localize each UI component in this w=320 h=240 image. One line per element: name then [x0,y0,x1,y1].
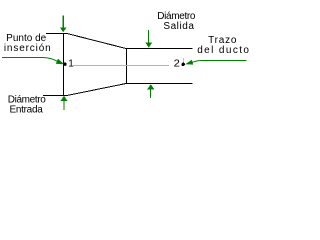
svg-text:1: 1 [68,59,74,70]
svg-text:del ducto: del ducto [197,45,250,56]
leader: punto de insercion (green underline + curve to node 1) [2,58,58,62]
leader: trazo del ducto (green underline + diagonal to node 2) [192,61,246,63]
wire: transition top slanted edge [67,34,126,49]
wire: duct bottom edge [126,83,193,85]
wire: duct centerline (gray) [73,65,169,67]
arrow: entrada bottom dimension arrow (up) [61,96,68,110]
wire: transition throat vertical edge [126,48,128,84]
svg-text:inserción: inserción [4,43,52,54]
arrow: salida top dimension arrow (down) [145,30,152,48]
svg-text:Salida: Salida [163,21,194,32]
arrow: salida bottom dimension arrow (up) [147,84,154,98]
wire: entrada left vertical edge [63,33,65,95]
svg-text:2: 2 [174,59,181,70]
wire: bottom-left extension line [43,95,68,97]
leader arrowhead at node 2 [185,60,193,65]
svg-text:Entrada: Entrada [9,105,43,116]
leader arrowhead at node 1 [56,59,64,65]
wire: top-left extension line [46,33,68,35]
arrow: entrada top dimension arrow (down) [60,16,67,33]
wire: transition bottom slanted edge [67,84,126,96]
node 2 grip tick (gray) [183,58,185,63]
node 2 (duct end dot) [182,63,185,66]
wire: duct top edge [126,48,193,50]
node 1 (insertion point dot) [63,63,66,66]
